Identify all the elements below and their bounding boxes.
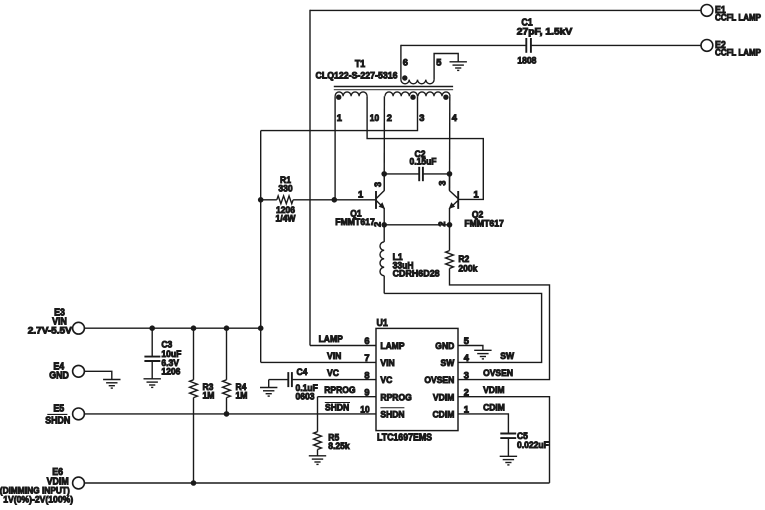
wire R2 to OVSEN bbox=[450, 268, 550, 379]
polarity dot pin 3 bbox=[410, 95, 415, 100]
wire R1 to Q1 base bbox=[293, 199, 375, 201]
svg-text:OVSEN: OVSEN bbox=[483, 368, 513, 379]
ground R5 bbox=[309, 456, 326, 465]
wire pin 2 down bbox=[383, 96, 385, 190]
polarity dot pin 1 bbox=[336, 95, 341, 100]
wire pin 10 to Q2 base bbox=[367, 96, 483, 199]
ground U1 GND bbox=[474, 350, 491, 359]
wire E2 left bbox=[401, 44, 526, 46]
wire R2 top bbox=[449, 225, 451, 251]
wire E2 right bbox=[531, 44, 701, 46]
svg-text:9: 9 bbox=[364, 387, 369, 397]
svg-text:RPROG: RPROG bbox=[324, 385, 355, 396]
wire RPROG to U1 bbox=[318, 396, 377, 398]
capacitor C1 bbox=[526, 38, 531, 53]
wire VDIM row bbox=[85, 482, 550, 484]
transistor Q1 bbox=[375, 191, 377, 209]
svg-text:1: 1 bbox=[337, 113, 342, 123]
terminal E3 bbox=[73, 322, 85, 334]
svg-text:3: 3 bbox=[373, 182, 383, 187]
transformer T1 secondary winding 6-5 bbox=[400, 45, 402, 80]
ground E4 bbox=[103, 380, 120, 389]
svg-text:U1: U1 bbox=[377, 318, 389, 329]
capacitor C4 bbox=[287, 372, 289, 387]
svg-text:T1: T1 bbox=[355, 59, 366, 70]
wire emitter row bbox=[384, 224, 449, 226]
svg-text:0.15uF: 0.15uF bbox=[409, 157, 436, 168]
svg-text:2: 2 bbox=[387, 113, 392, 123]
svg-text:10: 10 bbox=[370, 113, 379, 123]
svg-text:1206: 1206 bbox=[161, 367, 180, 378]
transformer T1 primary winding 3-4 bbox=[418, 92, 450, 96]
junction C3 bbox=[149, 325, 155, 331]
junction R3 VDIM bbox=[191, 480, 197, 486]
svg-text:8.25k: 8.25k bbox=[328, 441, 350, 452]
wire R4 bottom bbox=[226, 398, 228, 414]
resistor R3 bbox=[190, 380, 198, 398]
svg-text:8: 8 bbox=[364, 370, 369, 380]
svg-text:FMMT617: FMMT617 bbox=[464, 218, 504, 229]
svg-text:GND: GND bbox=[49, 370, 69, 381]
svg-text:27pF, 1.5kV: 27pF, 1.5kV bbox=[517, 26, 573, 37]
ground C5 bbox=[500, 456, 517, 465]
resistor R5 bbox=[314, 432, 322, 450]
wire pin 1 down bbox=[334, 96, 336, 200]
svg-text:RPROG: RPROG bbox=[380, 392, 411, 403]
wire RPROG down bbox=[317, 397, 319, 432]
svg-text:0.022uF: 0.022uF bbox=[517, 440, 549, 451]
wire GND pin bbox=[458, 346, 483, 351]
junction C2 right bbox=[447, 171, 453, 177]
transformer T1 primary winding 2-3 bbox=[385, 92, 417, 96]
wire E1 top bbox=[310, 9, 701, 11]
polarity dot pin 4 bbox=[443, 95, 448, 100]
svg-text:VDIM: VDIM bbox=[433, 392, 454, 403]
svg-text:1: 1 bbox=[358, 190, 363, 200]
svg-text:CDIM: CDIM bbox=[483, 402, 505, 413]
svg-text:CDIM: CDIM bbox=[433, 409, 455, 420]
svg-text:VDIM: VDIM bbox=[483, 385, 504, 396]
svg-text:CLQ122-S-227-5316: CLQ122-S-227-5316 bbox=[316, 70, 398, 81]
svg-text:1V(0%)-2V(100%): 1V(0%)-2V(100%) bbox=[3, 495, 73, 506]
transformer core bbox=[334, 86, 453, 88]
svg-text:6: 6 bbox=[403, 58, 408, 68]
svg-text:200k: 200k bbox=[458, 263, 478, 274]
svg-text:VC: VC bbox=[380, 375, 392, 386]
svg-text:330: 330 bbox=[278, 183, 292, 194]
junction VIN rail bbox=[258, 325, 264, 331]
svg-text:SW: SW bbox=[441, 358, 455, 369]
svg-text:VC: VC bbox=[327, 368, 339, 379]
terminal E2 bbox=[701, 40, 713, 52]
svg-text:3: 3 bbox=[464, 370, 469, 380]
junction R1 left bbox=[258, 197, 264, 203]
polarity dot pin 6 bbox=[402, 75, 407, 80]
wire R3 top bbox=[193, 328, 195, 380]
wire E4 to ground bbox=[85, 371, 112, 379]
svg-text:FMMT617: FMMT617 bbox=[335, 217, 375, 228]
wire SHDN row bbox=[85, 413, 376, 415]
svg-text:0603: 0603 bbox=[296, 392, 315, 403]
svg-text:5: 5 bbox=[464, 336, 469, 346]
svg-text:4: 4 bbox=[452, 113, 458, 123]
junction R4 top bbox=[224, 325, 230, 331]
svg-text:VIN: VIN bbox=[327, 351, 341, 362]
wire VC to U1 bbox=[292, 379, 376, 381]
ground C4 bbox=[260, 388, 277, 397]
transformer T1 primary winding 1-10 bbox=[335, 92, 367, 96]
svg-text:CDRH6D28: CDRH6D28 bbox=[393, 269, 440, 280]
wire CDIM bbox=[458, 414, 508, 433]
svg-text:CCFL LAMP: CCFL LAMP bbox=[715, 48, 761, 58]
junction emitter Q2 bbox=[447, 222, 453, 228]
svg-text:SHDN: SHDN bbox=[380, 409, 404, 420]
svg-text:OVSEN: OVSEN bbox=[424, 375, 454, 386]
svg-text:3: 3 bbox=[438, 181, 448, 186]
wire VIN to U1 bbox=[261, 361, 376, 363]
wire pin 3 to VIN rail bbox=[261, 96, 418, 130]
svg-text:VIN: VIN bbox=[380, 358, 394, 369]
svg-text:10: 10 bbox=[360, 405, 369, 415]
svg-text:5: 5 bbox=[436, 57, 441, 67]
svg-text:2.7V-5.5V: 2.7V-5.5V bbox=[28, 326, 73, 337]
terminal E6 bbox=[73, 477, 85, 489]
junction emitter Q1 bbox=[381, 222, 387, 228]
svg-text:1808: 1808 bbox=[517, 56, 536, 67]
terminal E1 bbox=[701, 4, 713, 16]
svg-text:6: 6 bbox=[364, 336, 369, 346]
wire VIN row bbox=[85, 327, 261, 329]
svg-text:CCFL LAMP: CCFL LAMP bbox=[715, 13, 761, 23]
capacitor C5 bbox=[500, 433, 516, 435]
svg-text:GND: GND bbox=[435, 341, 454, 352]
terminal E4 bbox=[73, 365, 85, 377]
svg-text:2: 2 bbox=[464, 387, 469, 397]
svg-text:LAMP: LAMP bbox=[319, 334, 344, 345]
transistor Q2 bbox=[457, 191, 459, 209]
IC U1 LTC1697EMS box bbox=[376, 328, 458, 430]
svg-text:1: 1 bbox=[464, 405, 469, 415]
terminal E5 bbox=[73, 408, 85, 420]
wire L1 to SW bbox=[384, 293, 541, 362]
resistor R4 bbox=[223, 380, 231, 398]
resistor R1 bbox=[277, 196, 293, 204]
wire R5 bottom bbox=[317, 450, 319, 456]
svg-text:C4: C4 bbox=[297, 367, 309, 378]
svg-text:4: 4 bbox=[464, 353, 470, 363]
capacitor C2 bbox=[418, 167, 420, 181]
svg-text:3: 3 bbox=[419, 113, 424, 123]
svg-text:1/4W: 1/4W bbox=[276, 214, 296, 225]
wire R3 bottom bbox=[193, 398, 195, 483]
junction R3 top bbox=[191, 325, 197, 331]
ground C3 bbox=[144, 379, 161, 388]
ground at T1 pin 5 bbox=[450, 62, 467, 71]
svg-text:1M: 1M bbox=[236, 390, 248, 401]
svg-text:1: 1 bbox=[474, 190, 479, 200]
svg-text:2: 2 bbox=[437, 221, 447, 226]
inductor L1 bbox=[383, 225, 385, 242]
svg-text:SHDN: SHDN bbox=[325, 402, 349, 413]
wire LAMP vertical bbox=[309, 10, 311, 346]
junction R4 SHDN bbox=[224, 411, 230, 417]
svg-text:1M: 1M bbox=[203, 390, 215, 401]
wire C2 left bbox=[384, 173, 419, 175]
svg-text:E5: E5 bbox=[53, 404, 64, 415]
wire C2 right bbox=[423, 173, 449, 175]
svg-text:LAMP: LAMP bbox=[380, 341, 405, 352]
svg-text:LTC1697EMS: LTC1697EMS bbox=[377, 433, 432, 444]
capacitor C3 bbox=[151, 328, 153, 356]
wire R1 left bbox=[261, 199, 277, 201]
svg-text:SHDN: SHDN bbox=[45, 416, 70, 427]
wire R4 top bbox=[226, 328, 228, 380]
wire pin 4 down bbox=[449, 96, 451, 190]
resistor R2 bbox=[446, 251, 454, 269]
wire VIN vertical rail bbox=[260, 131, 262, 363]
junction C2 left bbox=[381, 171, 387, 177]
wire LAMP horizontal bbox=[310, 345, 376, 347]
junction pin1-base bbox=[332, 197, 338, 203]
svg-text:SW: SW bbox=[500, 351, 514, 362]
wire VDIM bbox=[458, 397, 550, 483]
